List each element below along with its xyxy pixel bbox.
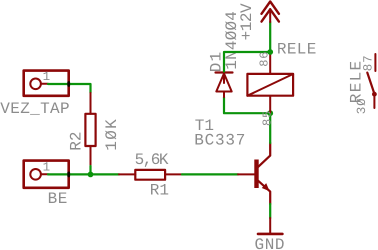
- resistor R1: [119, 170, 182, 180]
- wire pin85 junction to diode anode: [224, 97, 270, 113]
- svg-text:R2: R2: [68, 131, 86, 150]
- connector X2 BE: [24, 161, 69, 188]
- diode D1: [216, 73, 233, 98]
- wire collector to relay pin 85: [269, 113, 271, 143]
- junction node at pin 85: [267, 110, 273, 116]
- svg-text:BC337: BC337: [194, 132, 246, 150]
- svg-text:BE: BE: [48, 190, 68, 208]
- wire crossing patch VEZ_TAP border: [67, 83, 70, 86]
- svg-text:+12V: +12V: [238, 3, 256, 40]
- wire junction to +12V supply: [269, 22, 271, 52]
- svg-text:1: 1: [43, 70, 51, 84]
- relay pin 86: [269, 53, 271, 73]
- connector X1 VEZ_TAP: [24, 71, 69, 96]
- junction node at pin 86 / +12V: [267, 49, 273, 55]
- wire crossing patch BE border: [67, 173, 70, 176]
- transistor T1: [238, 143, 270, 204]
- junction dot at BE net: [88, 172, 94, 178]
- svg-text:R1: R1: [150, 181, 169, 199]
- relay pin 85: [269, 97, 271, 113]
- wire R2 bottom to junction: [89, 166, 91, 174]
- resistor R2: [85, 93, 95, 166]
- svg-text:85: 85: [260, 110, 274, 126]
- relay K1 coil: [247, 74, 293, 96]
- wire emitter to GND: [269, 204, 271, 218]
- svg-text:VEZ_TAP: VEZ_TAP: [0, 100, 70, 118]
- switch contact RELE (connector): [367, 54, 377, 108]
- wire BE to R1: [48, 173, 119, 175]
- svg-text:5,6K: 5,6K: [135, 151, 169, 169]
- svg-text:RELE: RELE: [277, 41, 317, 59]
- wire VEZ_TAP to R2 top: [48, 84, 91, 93]
- svg-text:1ØK: 1ØK: [103, 118, 121, 151]
- svg-text:GND: GND: [255, 236, 286, 250]
- ground: [258, 218, 282, 234]
- supply +12V: [262, 2, 279, 23]
- svg-text:RELE: RELE: [347, 60, 365, 104]
- wire R1 to T1 base: [182, 173, 238, 175]
- wire diode cathode to +12V net: [224, 52, 270, 72]
- svg-text:1: 1: [43, 161, 51, 175]
